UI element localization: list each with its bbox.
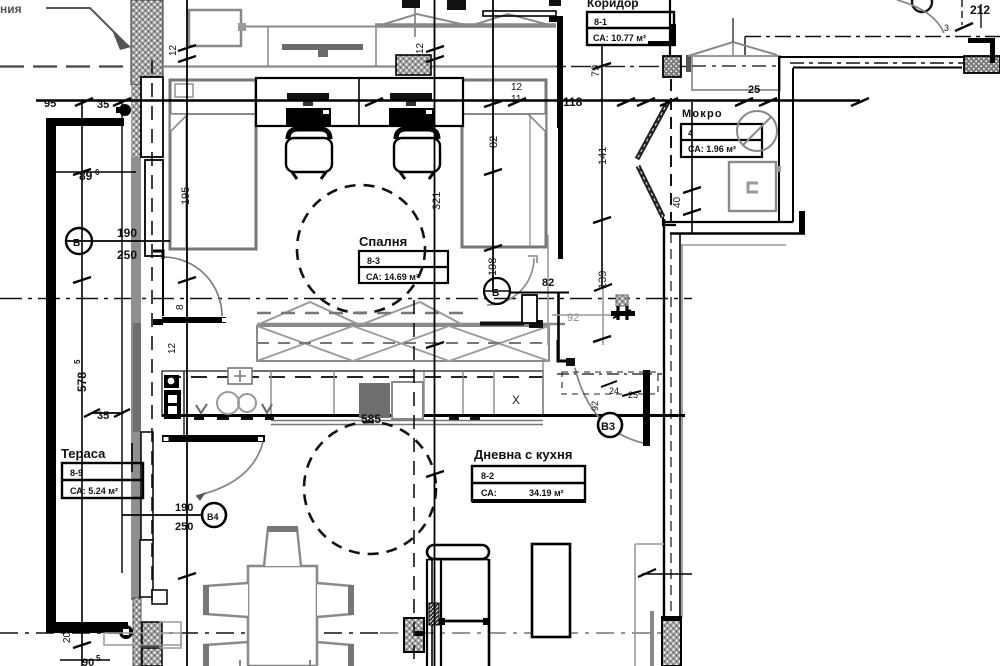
axis dash-dot y36 top right — [745, 36, 1000, 38]
svg-text:12: 12 — [168, 44, 179, 56]
pivot dot bottom terrace — [119, 625, 133, 639]
wall piece below bedroom door x557 — [557, 293, 560, 360]
counter dividers — [183, 371, 185, 442]
svg-text:35: 35 — [97, 99, 109, 111]
small hatch block beside sofa — [429, 603, 439, 625]
mokro bottom wall y222 — [663, 221, 793, 223]
hatched block bottom center — [404, 618, 424, 652]
monitor 1 — [287, 93, 329, 101]
svg-text:СА: 5.24 м²: СА: 5.24 м² — [70, 486, 118, 496]
dining chair right mid — [317, 583, 352, 617]
TV sideboard verticals — [267, 26, 269, 66]
svg-text:СА: 10.77 м²: СА: 10.77 м² — [593, 33, 646, 43]
counter dashed top (overhead cabinets) — [165, 376, 543, 378]
svg-text:Тераса: Тераса — [61, 446, 106, 461]
office chair 1 — [288, 129, 330, 139]
bedroom south sill gray — [257, 323, 463, 326]
svg-text:82: 82 — [542, 277, 554, 289]
svg-text:35: 35 — [97, 410, 109, 422]
mokro right wall — [778, 56, 780, 222]
door panel white boxes lower left wall — [141, 432, 153, 540]
svg-text:20: 20 — [62, 631, 73, 643]
sink tap — [228, 368, 252, 384]
svg-text:5: 5 — [96, 654, 101, 663]
svg-text:82: 82 — [488, 136, 500, 148]
small white box terrace door bottom — [152, 590, 167, 604]
svg-text:X: X — [512, 393, 520, 407]
mokro left dashed partition — [670, 79, 672, 222]
B3 circle — [598, 413, 622, 437]
svg-text:212: 212 — [970, 3, 990, 17]
terrace info table — [62, 463, 143, 498]
dim vertical x122 — [121, 101, 123, 573]
door arc top right + knob — [912, 0, 932, 12]
svg-text:139: 139 — [597, 271, 609, 289]
terrace top thick wall — [46, 118, 124, 126]
window glazing triangle top center — [375, 23, 556, 28]
svg-text:СА: 14.69 м²: СА: 14.69 м² — [366, 272, 419, 282]
window frame box1 left wall — [141, 77, 163, 157]
top right corner L wall — [968, 38, 995, 43]
svg-text:8-1: 8-1 — [594, 17, 607, 27]
dashed turning circle bedroom — [297, 185, 425, 313]
bedroom info table — [359, 251, 448, 283]
shaft symbol — [616, 295, 628, 306]
svg-text:190: 190 — [175, 502, 193, 514]
monitor 2 — [390, 93, 432, 101]
TV symbol — [282, 44, 363, 50]
svg-text:Дневна с кухня: Дневна с кухня — [474, 447, 572, 462]
svg-text:250: 250 — [175, 521, 193, 533]
terrace glass door dark strip — [133, 323, 141, 432]
top band: bottom line y66 gray — [163, 65, 556, 67]
svg-text:34.19 м²: 34.19 м² — [529, 488, 564, 498]
mokro info table — [681, 124, 762, 157]
svg-text:578: 578 — [75, 372, 89, 392]
corridor info table — [587, 12, 674, 45]
box right of fridge — [392, 382, 423, 419]
small appliance box above stove — [164, 375, 179, 388]
check arrows — [196, 404, 207, 413]
top band: shelf line y26 — [246, 26, 556, 28]
svg-text:ния: ния — [0, 2, 22, 16]
bed 1 left — [170, 80, 256, 249]
office chair 2 — [396, 129, 438, 139]
svg-text:195: 195 — [180, 187, 192, 205]
main dim line y100 — [36, 99, 860, 102]
svg-text:12: 12 — [415, 42, 426, 54]
svg-text:90: 90 — [82, 657, 94, 666]
svg-text:Б: Б — [73, 238, 80, 249]
sink bowls — [217, 392, 239, 414]
svg-text:321: 321 — [431, 192, 443, 210]
svg-text:Коридор: Коридор — [587, 0, 639, 10]
axis dash-dot horizontal top y66 — [0, 65, 130, 67]
svg-text:198: 198 — [487, 258, 499, 276]
svg-text:92: 92 — [590, 401, 600, 411]
svg-text:8: 8 — [175, 304, 186, 310]
cabinet tick dashes under line — [194, 417, 480, 420]
svg-text:24: 24 — [609, 386, 619, 396]
left wall gray strip — [131, 85, 141, 600]
living top wall y233 — [670, 232, 805, 235]
terrace door arc bottom — [196, 442, 263, 496]
desk — [256, 78, 463, 126]
dim 190/250 upper with bubble — [66, 228, 92, 254]
svg-text:250: 250 — [117, 248, 137, 262]
svg-text:СА: 1.96 м²: СА: 1.96 м² — [688, 144, 736, 154]
dim vertical x82 — [81, 100, 83, 666]
right wall of living room vertical double — [663, 219, 665, 617]
left exterior wall stippled top — [131, 0, 163, 85]
svg-text:141: 141 — [597, 147, 609, 165]
dim 40 vertical at mokro — [691, 102, 693, 233]
under-counter gray lines — [271, 420, 543, 422]
svg-text:190: 190 — [117, 226, 137, 240]
axis dash-dot horizontal bottom y633 — [0, 632, 380, 634]
svg-text:8-2: 8-2 — [481, 471, 494, 481]
gray vertical at window bottom right — [650, 611, 654, 666]
entry door arc — [575, 368, 643, 443]
bedroom terrace door arc — [163, 257, 222, 316]
dining chair left bottom — [205, 642, 248, 666]
pivot dot top terrace — [119, 104, 131, 116]
bifold door mokro — [637, 102, 668, 159]
axis dash-dot y63 right — [790, 62, 1000, 64]
entry door leaf — [643, 370, 650, 446]
window head band black — [483, 11, 556, 16]
left wall stipple strip bottom — [133, 598, 141, 666]
svg-text:СА:: СА: — [481, 488, 497, 498]
wall bedroom-corridor vertical x560 — [557, 16, 563, 128]
short line x132 — [131, 443, 133, 472]
dining chair right bottom — [317, 642, 352, 666]
bedroom door arc right — [487, 258, 534, 305]
stipple blocks bottom left — [142, 622, 162, 646]
black bit left of block — [415, 631, 424, 636]
gray outline rect below bottom wall — [104, 633, 181, 645]
bedroom window zigzag — [257, 302, 463, 325]
dim line y574 right — [642, 573, 692, 575]
right wall hatched block bottom — [662, 617, 681, 666]
chair backs bottom row — [240, 660, 310, 666]
washing machine — [737, 111, 777, 151]
svg-text:118: 118 — [563, 95, 583, 109]
corridor right wall x670 — [669, 0, 671, 56]
hatched block top center — [396, 55, 431, 75]
tick marks right top — [955, 23, 973, 31]
living room info table — [472, 466, 585, 501]
dining chair left mid — [205, 583, 248, 617]
svg-text:3: 3 — [944, 23, 949, 33]
hatched column top right corner — [964, 56, 1000, 73]
dashed vertical lines — [151, 60, 153, 600]
bedroom-hall door jambs — [522, 295, 537, 323]
interior gray corner living NE — [681, 244, 683, 617]
svg-text:40: 40 — [672, 196, 683, 208]
wall stub bedroom-kitchen y317 — [153, 319, 163, 325]
dining chair top — [264, 528, 301, 566]
dim vertical x187 — [186, 0, 188, 666]
svg-text:11: 11 — [511, 94, 522, 105]
terrace bottom thick wall — [46, 622, 128, 633]
dim vertical x434 — [434, 0, 436, 666]
axis bubble at bedroom door — [484, 278, 510, 304]
svg-text:В3: В3 — [601, 421, 615, 433]
svg-text:585: 585 — [361, 412, 381, 426]
sill right segment with black bits — [463, 323, 565, 326]
entry door: left jamb — [558, 340, 575, 361]
svg-text:95: 95 — [44, 98, 56, 110]
terrace left thick wall — [46, 118, 56, 633]
coffee table / cabinet — [532, 544, 570, 637]
stove black box — [164, 390, 181, 419]
boiler — [729, 162, 776, 211]
hatched column mokro — [663, 56, 681, 77]
svg-text:25: 25 — [748, 84, 760, 96]
svg-text:89: 89 — [79, 169, 93, 183]
axis dash-dot entry y374 — [557, 373, 662, 375]
corridor top-left wall corner of mokro — [648, 41, 676, 46]
X-brace band (closet) — [257, 326, 549, 361]
dim line y172 terrace — [50, 171, 136, 173]
top right wall band — [780, 56, 965, 58]
axis dash-dot horizontal mid y298 — [0, 298, 692, 300]
dim 190/250 lower with bubble — [202, 503, 226, 527]
svg-text:12: 12 — [167, 342, 178, 354]
svg-text:8-9: 8-9 — [70, 468, 83, 478]
dining table — [248, 566, 317, 666]
bed 2 right — [462, 80, 546, 247]
dark block right of column — [686, 55, 697, 72]
door jamb top left of arc — [153, 251, 163, 259]
kitchen-terrace wall stub with door — [162, 435, 265, 442]
dim 139 vertical — [601, 45, 603, 288]
dashed turning circle living — [304, 422, 436, 554]
kitchen heavy bottom line — [162, 414, 685, 417]
thick black segment y500 — [472, 499, 586, 503]
fridge dark — [359, 383, 390, 418]
svg-text:92: 92 — [567, 312, 579, 324]
svg-text:Спалня: Спалня — [359, 234, 407, 249]
svg-text:8-3: 8-3 — [367, 256, 380, 266]
keyboard 1 — [286, 108, 331, 125]
svg-text:79: 79 — [590, 65, 602, 77]
svg-text:12: 12 — [511, 82, 523, 93]
armchair sofa right — [427, 545, 489, 559]
svg-text:В4: В4 — [207, 512, 219, 522]
svg-text:Мокро: Мокро — [682, 108, 723, 120]
svg-text:6: 6 — [95, 168, 100, 177]
dim vertical x493 — [492, 0, 494, 292]
window frame box2 left wall — [145, 160, 163, 256]
kitchen counter band — [162, 371, 543, 416]
black blocks top edge — [402, 0, 420, 8]
keyboard 2 — [389, 108, 434, 125]
mokro window — [692, 56, 780, 90]
top band: wardrobe A — [189, 10, 241, 46]
dim 35 at y413 — [91, 412, 124, 414]
dashed niche at entry — [562, 372, 658, 394]
svg-text:5: 5 — [73, 359, 82, 364]
